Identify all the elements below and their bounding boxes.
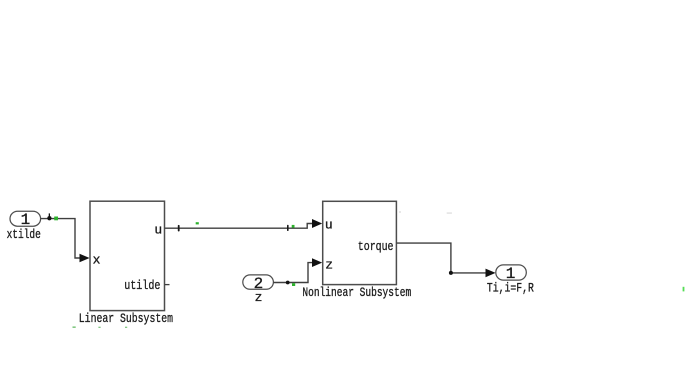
subsystem block: Nonlinear Subsystem (323, 201, 397, 284)
svg-text:z: z (325, 258, 333, 273)
junction dot on z wire (286, 281, 290, 285)
artifact: faint green dashes under Linear Subsystem label (73, 327, 128, 328)
marker tick on u wire (near source) (178, 225, 180, 232)
wire: inport 2 to Nonlinear Subsystem z input (273, 258, 322, 282)
svg-text:u: u (325, 217, 333, 232)
linearization marker (green square) on xtilde wire (54, 217, 58, 221)
svg-text:x: x (93, 252, 101, 267)
subsystem block: Linear Subsystem (90, 201, 165, 310)
green marker on z wire (292, 283, 295, 286)
artifact: faint green dash far right (683, 287, 685, 292)
svg-text:z: z (255, 290, 263, 305)
wire: Linear Subsystem u output to Nonlinear Subsystem u input (165, 219, 323, 228)
wire: torque output to outport 1 (396, 243, 495, 277)
green marker above u wire (near source) (196, 222, 199, 224)
inport 1 (xtilde) (10, 211, 41, 229)
wire: inport 1 to Linear Subsystem x input (41, 219, 90, 263)
svg-text:Nonlinear Subsystem: Nonlinear Subsystem (302, 285, 411, 300)
svg-text:u: u (154, 223, 162, 238)
green marker on u wire (near destination) (292, 225, 295, 228)
outport 1 (Ti,i=F,R) (496, 265, 527, 283)
unconnected utilde output port stub (165, 284, 170, 286)
marker tick on u wire (near destination) (287, 225, 289, 231)
svg-text:torque: torque (358, 239, 394, 254)
svg-text:Ti,i=F,R: Ti,i=F,R (487, 281, 534, 296)
junction dot on torque wire corner (449, 271, 453, 275)
svg-text:xtilde: xtilde (7, 227, 41, 242)
artifact: gray speck near Nonlinear Subsystem top-right (399, 211, 401, 212)
svg-text:utilde: utilde (124, 278, 160, 293)
linearization marker (black down-arrow) on xtilde wire (47, 213, 51, 220)
artifact: faint gray dash above torque wire (447, 212, 452, 214)
inport 2 (z) (243, 275, 274, 293)
svg-text:Linear Subsystem: Linear Subsystem (79, 311, 173, 326)
